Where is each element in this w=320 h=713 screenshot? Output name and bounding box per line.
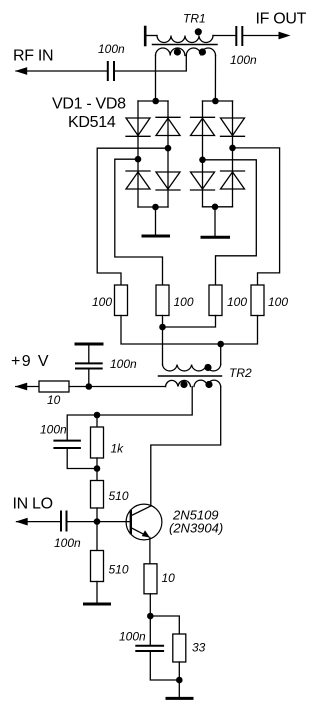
node emitter network [147, 613, 154, 620]
svg-text:RF IN: RF IN [13, 48, 53, 65]
wire IN LO to cap [17, 521, 61, 523]
IN LO arrow [16, 518, 28, 526]
svg-text:TR2: TR2 [229, 366, 252, 380]
wire cap bottom to 1k bottom [67, 449, 97, 469]
wire resistor to node [69, 386, 166, 388]
wire cap to base node [68, 521, 130, 523]
svg-text:510: 510 [109, 489, 129, 503]
capacitor 100n emitter bypass [136, 646, 163, 651]
diode VD1 [126, 118, 150, 136]
diode VD8 [221, 171, 245, 189]
transistor Q1 circle [126, 504, 162, 540]
ground supply cap [76, 343, 102, 346]
wire TR1 secondary left end down to bridge 1 [155, 56, 157, 102]
wire 1k top branch to cap [67, 415, 97, 440]
wire bridge1 right mid to left outer rail [97, 148, 168, 285]
TR1 primary phase dot [195, 28, 202, 35]
svg-text:100n: 100n [119, 630, 146, 644]
svg-text:100n: 100n [230, 53, 257, 67]
TR2 secondary phase dot right [205, 381, 212, 388]
wire node to 33 resistor [150, 616, 179, 634]
wire ground stem [178, 680, 180, 697]
wire node down to cap [149, 616, 151, 645]
wire bridge1 bottom bar [138, 206, 168, 208]
capacitor 100n supply bypass [76, 363, 102, 368]
wire RF IN to cap [16, 70, 107, 72]
svg-text:VD1 - VD8: VD1 - VD8 [52, 96, 126, 113]
wire Rb-Rc bottom link [163, 316, 216, 328]
wire +9V arrow to resistor [16, 386, 39, 388]
TR2 secondary phase dot left [180, 381, 187, 388]
svg-text:100: 100 [227, 295, 247, 309]
node ground join [176, 677, 183, 684]
node bridge2 right mid [229, 145, 236, 152]
terminal bar left of TR1 [144, 27, 147, 45]
resistor 1k [91, 427, 104, 458]
wire 1k bottom stub [96, 458, 98, 481]
diode VD4 [156, 172, 180, 190]
capacitor 100n LO input [61, 512, 67, 531]
capacitor 100n IF out [236, 27, 242, 45]
wire bridge1 left mid to left inner rail [115, 159, 163, 285]
resistor 33 [173, 634, 186, 662]
wire cap bottom lead [88, 370, 90, 387]
svg-text:33: 33 [192, 641, 206, 655]
svg-text:100n: 100n [110, 357, 137, 371]
resistor 510 upper [91, 481, 104, 509]
TR1 secondary phase dot right [199, 48, 206, 55]
resistor 10 emitter [144, 564, 157, 594]
svg-text:100n: 100n [98, 42, 125, 56]
svg-text:IN LO: IN LO [13, 496, 53, 513]
wire Ra bottom to Rd bottom [121, 316, 258, 345]
svg-text:100n: 100n [40, 423, 67, 437]
wire bridge2 top bar [203, 100, 233, 102]
wire bridge2 right branch [232, 101, 234, 207]
svg-text:100n: 100n [54, 536, 81, 550]
ground bottom [167, 697, 192, 700]
wire RF cap to TR1 center tap [115, 56, 186, 72]
diode VD3 [126, 171, 150, 189]
diode VD5 [191, 117, 215, 135]
TR2 secondary winding left half [166, 380, 191, 386]
transformer TR2 primary winding [163, 365, 221, 371]
diode VD6 [221, 118, 245, 136]
svg-text:100: 100 [92, 295, 112, 309]
wire bridge2 left branch [202, 101, 204, 207]
node TR2 primary right [217, 341, 224, 348]
node bridge1 bottom [152, 204, 159, 211]
wire bridge2 right mid to right outer rail [233, 148, 280, 285]
node bridge2 bottom [212, 204, 219, 211]
svg-text:(2N3904): (2N3904) [169, 521, 223, 536]
svg-text:100: 100 [268, 295, 288, 309]
capacitor 100n feedback [54, 441, 80, 448]
svg-text:100: 100 [174, 295, 194, 309]
node bridge2 left mid [199, 157, 206, 164]
resistor 100 Rc [209, 285, 222, 316]
TR1 secondary winding left half [156, 48, 185, 55]
capacitor 100n RF in [108, 62, 114, 80]
wire IF cap to arrow [244, 35, 280, 37]
svg-text:1k: 1k [111, 442, 125, 456]
wire bridge2 left mid to right inner rail [203, 160, 257, 285]
svg-text:TR1: TR1 [183, 12, 206, 26]
TR2 core [159, 375, 222, 377]
wire 1k top stub [96, 415, 98, 427]
+9V arrow [15, 383, 27, 391]
ground bridge2 [202, 236, 229, 239]
resistor 510 lower [91, 551, 104, 582]
node bridge1 left mid [135, 156, 142, 163]
wire bridge2 ground stem [214, 207, 216, 236]
wire bridge1 right branch [167, 101, 169, 207]
node bridge2 top [212, 98, 219, 105]
wire emitter down [149, 538, 151, 564]
IF OUT arrow [279, 32, 291, 40]
wire bridge1 left branch [137, 101, 139, 207]
TR1 core [153, 44, 218, 46]
resistor 100 Ra [115, 285, 128, 316]
wire bridge1 top bar [138, 100, 168, 102]
node 1k top [94, 412, 101, 419]
wire 510 lower to ground [96, 582, 98, 603]
wire 33 bottom stub [178, 662, 180, 680]
node Rb bottom [159, 324, 166, 331]
TR2 secondary winding right half [194, 380, 221, 386]
resistor 100 Rd [251, 285, 264, 316]
TR1 secondary phase dot left [174, 48, 181, 55]
wire cap top lead [88, 345, 90, 362]
node bridge1 right mid [165, 145, 172, 152]
wire TR1 primary to IF cap [213, 35, 235, 37]
TR2 primary phase dot [204, 364, 211, 371]
node bridge1 top [152, 98, 159, 105]
TR1 secondary winding right half [186, 48, 215, 56]
wire TR2 center tap down and left to 1k [97, 387, 192, 416]
node supply cap [86, 383, 93, 390]
RF IN arrow [15, 67, 27, 75]
wire Rb bottom to TR2 primary left [162, 316, 164, 365]
wire collector up [151, 387, 221, 507]
ground bridge1 [143, 235, 169, 238]
wire emitter resistor to node [149, 594, 151, 616]
wire TR1 secondary right end down to bridge 2 [214, 56, 216, 102]
ground 510 lower [85, 603, 110, 606]
transformer TR1 primary winding [157, 36, 213, 43]
transistor emitter inner [132, 528, 149, 537]
diode VD7 [191, 172, 215, 190]
svg-text:510: 510 [109, 563, 129, 577]
svg-text:KD514: KD514 [68, 114, 116, 131]
node base [94, 518, 101, 525]
svg-text:10: 10 [47, 393, 61, 407]
wire node to TR2 primary right [220, 344, 222, 365]
resistor 10 supply [39, 381, 69, 392]
wire 510 to base node [96, 508, 98, 551]
transistor emitter arrowhead [142, 530, 150, 537]
transistor base bar [130, 511, 132, 533]
wire bridge1 ground stem [155, 207, 157, 235]
svg-text:10: 10 [162, 571, 176, 585]
wire TR1 primary left [147, 35, 158, 37]
svg-text:+9 V: +9 V [11, 353, 50, 370]
node 1k bottom [94, 465, 101, 472]
diode VD2 [156, 117, 180, 135]
wire bridge2 bottom bar [203, 206, 233, 208]
wire cap bottom to ground node [150, 652, 179, 680]
svg-text:IF OUT: IF OUT [256, 11, 307, 28]
transistor collector inner [132, 506, 151, 516]
resistor 100 Rb [156, 285, 169, 316]
